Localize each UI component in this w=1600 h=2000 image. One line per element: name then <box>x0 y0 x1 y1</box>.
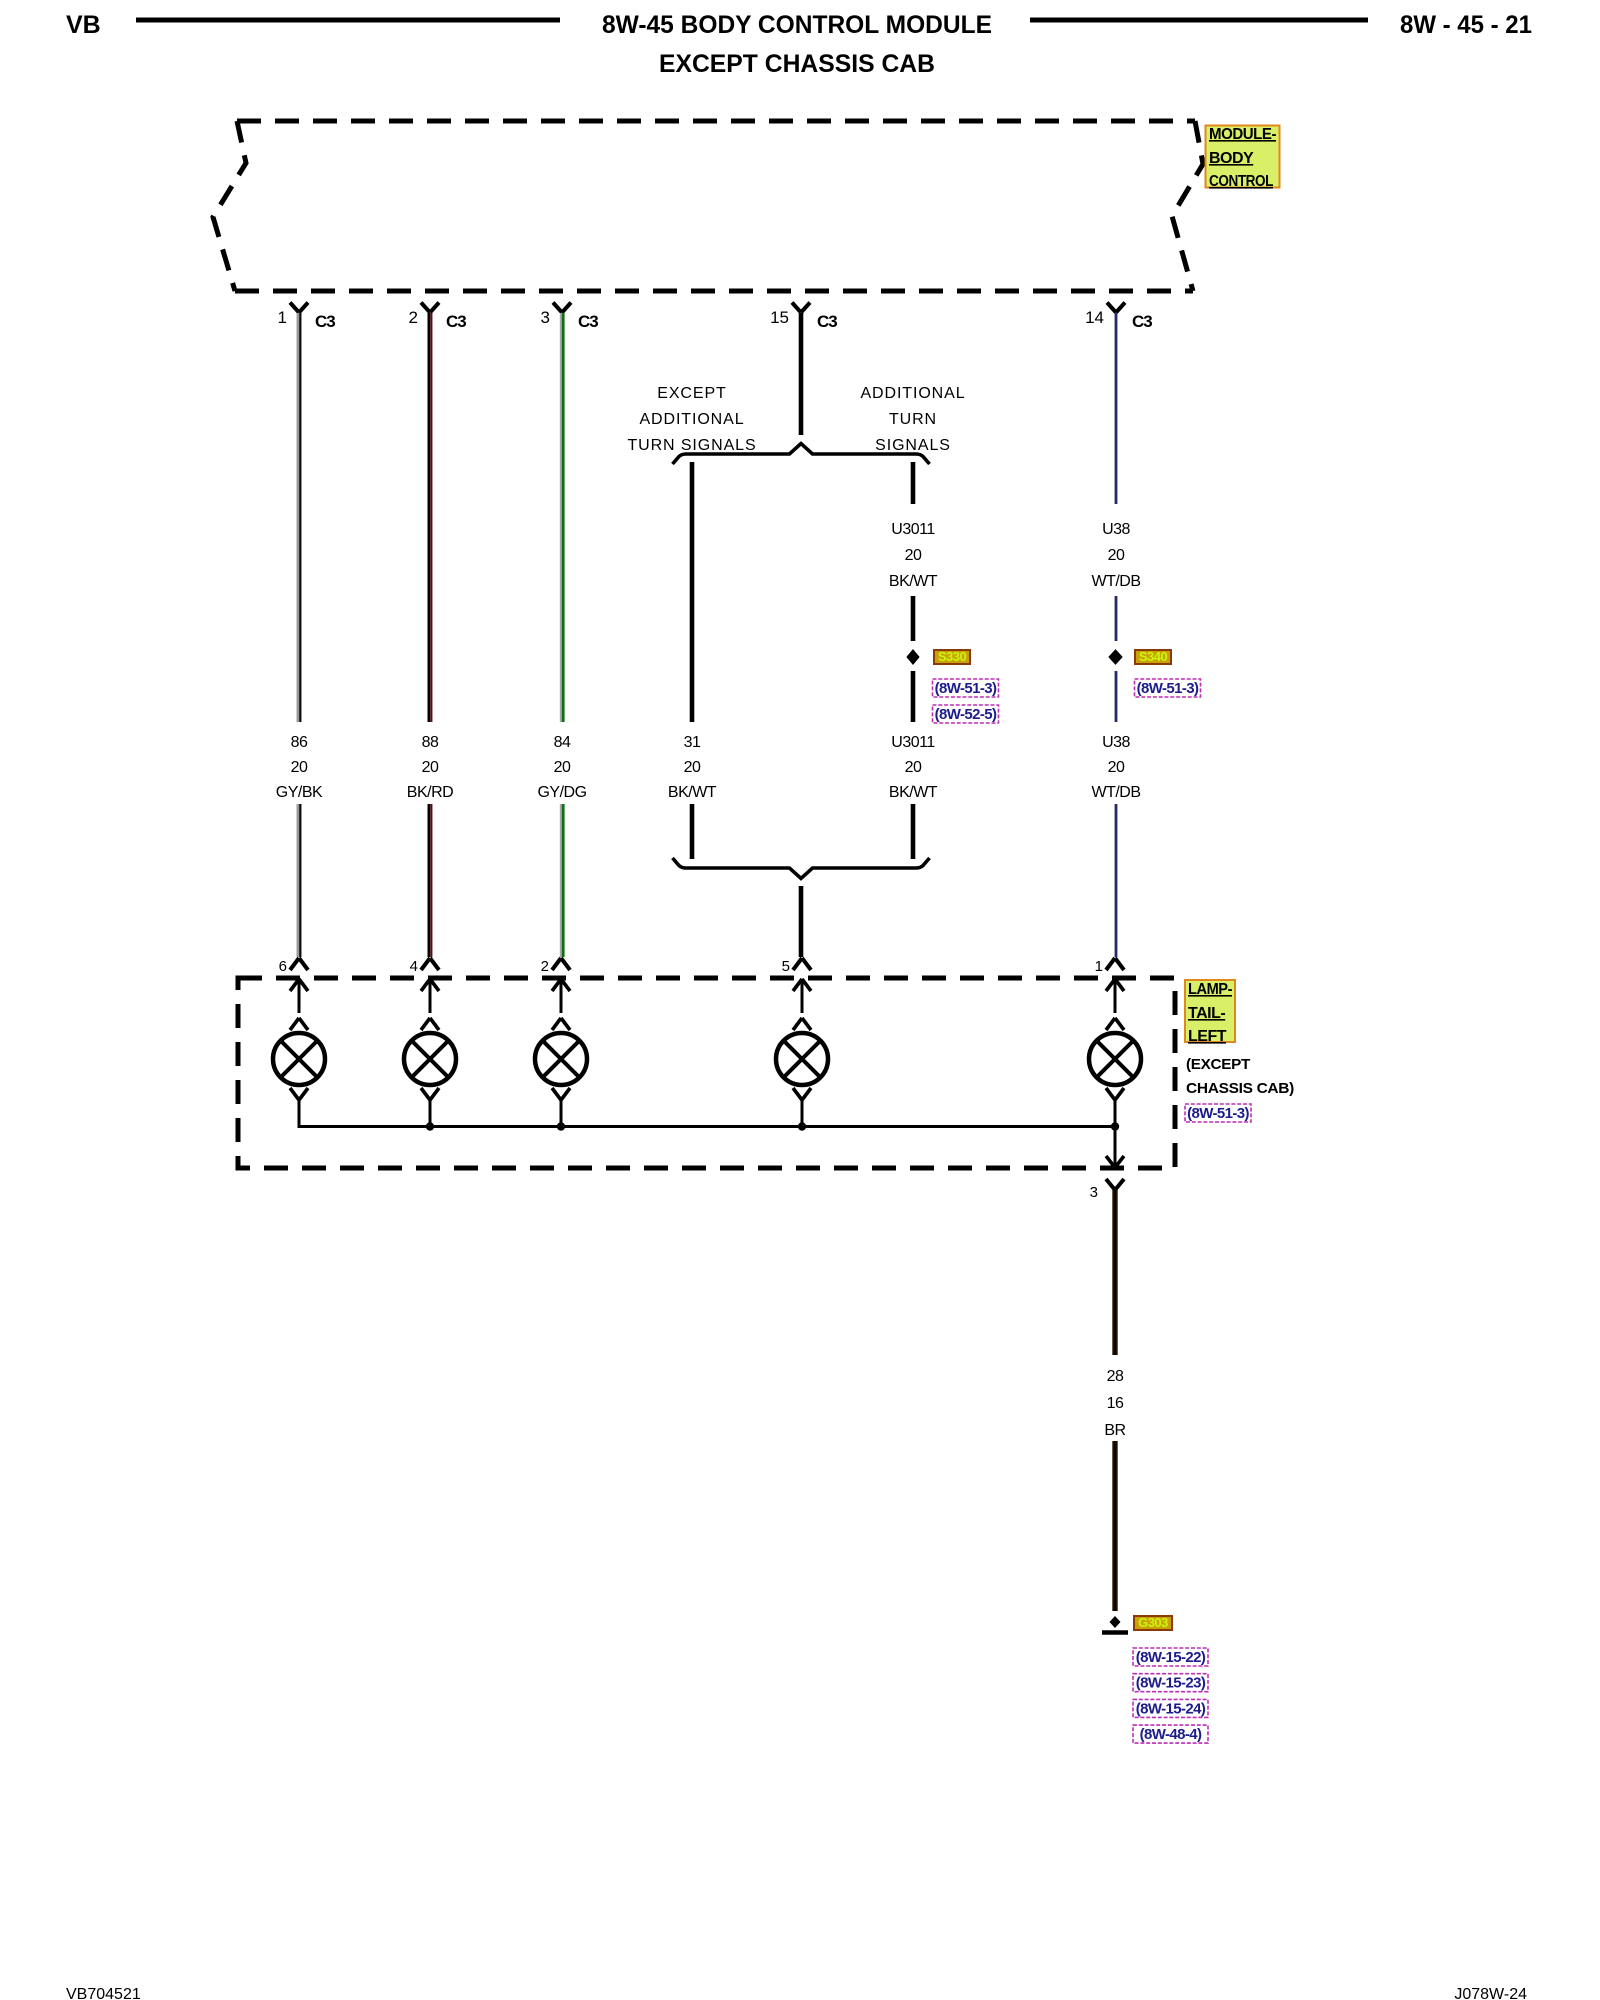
svg-text:(EXCEPT: (EXCEPT <box>1186 1056 1250 1073</box>
svg-text:S330: S330 <box>938 649 967 664</box>
label S330 <box>934 649 970 664</box>
header title 8W-45 BODY CONTROL MODULE <box>602 11 992 39</box>
label wire 84 20 GY/DG <box>537 734 586 801</box>
wire 84 20 GY/DG upper segment <box>561 313 563 722</box>
footer drawing number J078W-24 <box>1454 1986 1527 2000</box>
wire 28 16 BR upper segment <box>1112 1190 1117 1355</box>
svg-text:88: 88 <box>422 734 439 751</box>
svg-text:(8W-51-3): (8W-51-3) <box>1187 1105 1249 1122</box>
svg-text:14: 14 <box>1085 308 1104 327</box>
svg-text:BODY: BODY <box>1209 150 1254 167</box>
connector pin 5 of lamp <box>782 958 811 975</box>
wire 84 20 GY/DG lower segment <box>561 804 563 957</box>
svg-text:BK/WT: BK/WT <box>889 784 938 801</box>
label wire 28 16 BR <box>1104 1368 1125 1439</box>
wire 28 16 BR lower segment <box>1112 1441 1117 1611</box>
lamp L5 top connector <box>1106 1018 1124 1030</box>
svg-text:VB704521: VB704521 <box>66 1986 141 2000</box>
svg-text:28: 28 <box>1107 1368 1124 1385</box>
svg-text:LEFT: LEFT <box>1188 1028 1227 1045</box>
lamp L3 <box>535 1033 587 1085</box>
wire U38 20 WT/DB segment B <box>1115 596 1118 641</box>
svg-text:WT/DB: WT/DB <box>1091 784 1140 801</box>
arrow out of lamp box <box>1106 1156 1124 1168</box>
svg-text:15: 15 <box>770 308 789 327</box>
lamp L5 <box>1089 1033 1141 1085</box>
module U1 body control module top edge <box>237 119 1195 124</box>
link 8W-15-24 for G303 <box>1133 1699 1208 1717</box>
svg-text:C3: C3 <box>1132 312 1152 331</box>
wire 86 20 GY/BK upper segment <box>298 313 301 722</box>
wire U3011 20 BK/WT segment A <box>911 462 916 504</box>
bus wire in lamp box <box>299 1125 1115 1128</box>
svg-text:(8W-48-4): (8W-48-4) <box>1140 1726 1202 1743</box>
label wire U38 20 WT/DB upper <box>1091 521 1140 590</box>
svg-text:ADDITIONAL: ADDITIONAL <box>639 411 744 428</box>
svg-text:(8W-51-3): (8W-51-3) <box>935 680 997 697</box>
svg-text:U38: U38 <box>1102 521 1130 538</box>
lamp L5 bottom connector <box>1106 1088 1124 1128</box>
link 8W-48-4 for G303 <box>1133 1725 1208 1743</box>
label EXCEPT ADDITIONAL TURN SIGNALS <box>627 385 756 454</box>
svg-text:3: 3 <box>541 308 550 327</box>
svg-text:31: 31 <box>684 734 701 751</box>
svg-text:MODULE-: MODULE- <box>1209 126 1276 143</box>
label wire U38 20 WT/DB lower <box>1091 734 1140 801</box>
pin 1 arrow into lamp box <box>1106 979 1124 1013</box>
svg-text:8W-45 BODY CONTROL MODULE: 8W-45 BODY CONTROL MODULE <box>602 11 992 39</box>
svg-text:C3: C3 <box>315 312 335 331</box>
link 8W-51-3 for S330 <box>933 679 999 697</box>
svg-text:U38: U38 <box>1102 734 1130 751</box>
header subtitle EXCEPT CHASSIS CAB <box>659 50 935 78</box>
lamp L1 top connector <box>290 1018 308 1030</box>
label wire 88 20 BK/RD <box>407 734 453 801</box>
svg-text:(8W-15-24): (8W-15-24) <box>1136 1700 1206 1717</box>
link 8W-51-3 for lamp <box>1185 1104 1251 1122</box>
wire U3011 20 BK/WT segment C <box>911 671 916 722</box>
link 8W-15-23 for G303 <box>1133 1674 1208 1692</box>
junction dot at x=430 <box>426 1122 434 1130</box>
svg-text:2: 2 <box>541 958 549 975</box>
link 8W-15-22 for G303 <box>1133 1648 1208 1666</box>
link 8W-51-3 for S340 <box>1135 679 1201 697</box>
svg-text:(8W-15-23): (8W-15-23) <box>1136 1675 1206 1692</box>
svg-text:TURN SIGNALS: TURN SIGNALS <box>627 437 756 454</box>
pin 4 arrow into lamp box <box>421 979 439 1013</box>
svg-text:4: 4 <box>410 958 418 975</box>
svg-text:84: 84 <box>554 734 571 751</box>
junction dot at x=1115 <box>1111 1122 1119 1130</box>
svg-text:1: 1 <box>1095 958 1103 975</box>
module U1 left break edge <box>213 121 246 291</box>
header page number 8W - 45 - 21 <box>1400 11 1532 39</box>
connector pin 15 of C3 <box>770 303 837 332</box>
lamp L1 <box>273 1033 325 1085</box>
junction dot at x=802 <box>798 1122 806 1130</box>
svg-text:SIGNALS: SIGNALS <box>875 437 951 454</box>
svg-text:TAIL-: TAIL- <box>1188 1005 1225 1022</box>
svg-text:U3011: U3011 <box>891 734 935 751</box>
svg-text:20: 20 <box>291 759 308 776</box>
connector pin 3 of C3 <box>541 303 599 332</box>
svg-text:20: 20 <box>1108 759 1125 776</box>
label wire 86 20 GY/BK <box>276 734 323 801</box>
svg-text:20: 20 <box>684 759 701 776</box>
header right rule <box>1030 18 1368 23</box>
svg-text:(8W-52-5): (8W-52-5) <box>935 706 997 723</box>
pin 6 arrow into lamp box <box>290 979 308 1013</box>
label wire U3011 20 BK/WT lower <box>889 734 938 801</box>
svg-text:BK/WT: BK/WT <box>668 784 717 801</box>
svg-text:20: 20 <box>905 547 922 564</box>
wire 31 20 BK/WT lower segment <box>690 804 695 859</box>
svg-text:20: 20 <box>554 759 571 776</box>
lamp assembly LAMP-TAIL-LEFT dashed box <box>238 978 1175 1168</box>
svg-text:VB: VB <box>66 11 101 39</box>
svg-text:BK/RD: BK/RD <box>407 784 453 801</box>
svg-text:TURN: TURN <box>889 411 937 428</box>
wire U38 20 WT/DB segment D <box>1115 804 1118 957</box>
svg-text:3: 3 <box>1090 1184 1098 1201</box>
svg-text:BK/WT: BK/WT <box>889 573 938 590</box>
svg-text:20: 20 <box>422 759 439 776</box>
svg-text:16: 16 <box>1107 1395 1124 1412</box>
label ADDITIONAL TURN SIGNALS <box>860 385 965 454</box>
connector pin 4 of lamp <box>410 958 439 975</box>
svg-text:1: 1 <box>278 308 287 327</box>
lamp L2 <box>404 1033 456 1085</box>
brace split top <box>673 444 930 465</box>
svg-text:J078W-24: J078W-24 <box>1454 1986 1527 2000</box>
wire U38 20 WT/DB segment C <box>1115 671 1118 722</box>
lamp L4 <box>776 1033 828 1085</box>
svg-text:C3: C3 <box>446 312 466 331</box>
splice S340 <box>1110 651 1121 663</box>
pin 2 arrow into lamp box <box>552 979 570 1013</box>
bus wire drop to pin 3 <box>1114 1127 1117 1168</box>
label S340 <box>1135 649 1171 664</box>
junction dot at x=561 <box>557 1122 565 1130</box>
svg-text:LAMP-: LAMP- <box>1188 981 1232 998</box>
svg-text:U3011: U3011 <box>891 521 935 538</box>
wire U3011 20 BK/WT segment B <box>911 596 916 641</box>
lamp L4 bottom connector <box>793 1088 811 1128</box>
svg-text:EXCEPT: EXCEPT <box>657 385 726 402</box>
svg-text:6: 6 <box>279 958 287 975</box>
svg-text:20: 20 <box>905 759 922 776</box>
header page code VB <box>66 11 101 39</box>
svg-text:CONTROL: CONTROL <box>1209 173 1274 190</box>
lamp L3 bottom connector <box>552 1088 570 1128</box>
footer sheet code VB704521 <box>66 1986 141 2000</box>
svg-text:8W - 45 - 21: 8W - 45 - 21 <box>1400 11 1532 39</box>
lamp L2 top connector <box>421 1018 439 1030</box>
wire U3011 20 BK/WT segment D <box>911 804 916 859</box>
label wire 31 20 BK/WT <box>668 734 717 801</box>
svg-text:(8W-51-3): (8W-51-3) <box>1137 680 1199 697</box>
svg-text:S340: S340 <box>1139 649 1168 664</box>
svg-text:(8W-15-22): (8W-15-22) <box>1136 1649 1206 1666</box>
wire 88 20 BK/RD lower segment <box>429 804 432 957</box>
lamp L2 bottom connector <box>421 1088 439 1128</box>
svg-text:C3: C3 <box>578 312 598 331</box>
svg-text:CHASSIS CAB): CHASSIS CAB) <box>1186 1080 1294 1097</box>
connector pin 2 of lamp <box>541 958 570 975</box>
svg-text:WT/DB: WT/DB <box>1091 573 1140 590</box>
svg-text:86: 86 <box>291 734 308 751</box>
wire merged to pin 5 <box>799 886 804 957</box>
lamp L1 bottom connector <box>290 1088 308 1128</box>
svg-text:GY/BK: GY/BK <box>276 784 323 801</box>
lamp L3 top connector <box>552 1018 570 1030</box>
link 8W-52-5 for S330 <box>933 705 999 723</box>
svg-text:BR: BR <box>1104 1422 1125 1439</box>
ground G303 symbol <box>1102 1616 1128 1633</box>
svg-text:GY/DG: GY/DG <box>537 784 586 801</box>
module U1 bottom edge <box>235 289 1193 294</box>
label G303 <box>1134 1615 1172 1630</box>
label LAMP-TAIL-LEFT <box>1185 980 1235 1045</box>
connector pin 14 of C3 <box>1085 303 1152 332</box>
label MODULE-BODY CONTROL <box>1206 126 1280 191</box>
svg-text:EXCEPT CHASSIS CAB: EXCEPT CHASSIS CAB <box>659 50 935 78</box>
pin 5 arrow into lamp box <box>793 979 811 1013</box>
svg-text:C3: C3 <box>817 312 837 331</box>
wire 31 20 BK/WT upper segment <box>690 462 695 722</box>
svg-text:ADDITIONAL: ADDITIONAL <box>860 385 965 402</box>
splice S330 <box>908 651 918 663</box>
wire U38 20 WT/DB segment A <box>1115 313 1118 504</box>
lamp L4 top connector <box>793 1018 811 1030</box>
connector pin 2 of C3 <box>409 303 467 332</box>
connector pin 1 of C3 <box>278 303 336 332</box>
svg-text:20: 20 <box>1108 547 1125 564</box>
connector pin 3 of lamp <box>1090 1179 1124 1201</box>
module U1 right break edge <box>1172 121 1203 291</box>
wire from pin 15 BK <box>799 313 804 435</box>
wire 86 20 GY/BK lower segment <box>298 804 301 957</box>
brace merge bottom <box>673 858 930 879</box>
label wire U3011 20 BK/WT upper <box>889 521 938 590</box>
header left rule <box>136 18 560 23</box>
connector pin 1 of lamp <box>1095 958 1124 975</box>
wire 88 20 BK/RD upper segment <box>429 313 432 722</box>
svg-text:5: 5 <box>782 958 790 975</box>
svg-text:G303: G303 <box>1138 1615 1168 1630</box>
label EXCEPT CHASSIS CAB note <box>1186 1056 1294 1097</box>
svg-text:2: 2 <box>409 308 418 327</box>
connector pin 6 of lamp <box>279 958 308 975</box>
